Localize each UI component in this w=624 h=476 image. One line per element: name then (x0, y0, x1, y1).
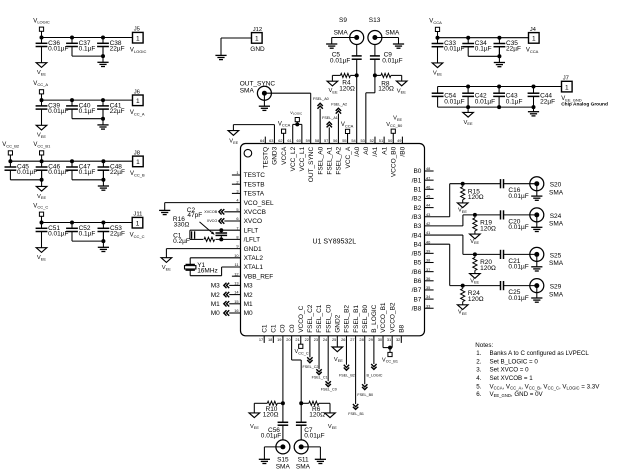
svg-text:34: 34 (426, 294, 431, 299)
svg-text:11: 11 (235, 262, 239, 267)
svg-text:FSEL_A2: FSEL_A2 (336, 146, 343, 174)
svg-text:OUT_SYNC: OUT_SYNC (308, 147, 315, 183)
svg-text:XVCCB: XVCCB (244, 209, 266, 216)
svg-text:B2: B2 (413, 205, 421, 212)
svg-text:27: 27 (350, 337, 354, 342)
svg-text:0.2µF: 0.2µF (173, 238, 190, 245)
svg-text:VEE: VEE (433, 70, 442, 76)
svg-text:35: 35 (426, 285, 430, 290)
svg-text:GND3: GND3 (272, 146, 279, 164)
svg-text:VCC_L1: VCC_L1 (299, 146, 306, 171)
svg-text:63: 63 (269, 138, 273, 143)
svg-text:120Ω: 120Ω (339, 85, 355, 92)
svg-text:14: 14 (234, 290, 239, 295)
svg-text:M2: M2 (211, 292, 220, 299)
svg-text:/B5: /B5 (412, 251, 422, 258)
svg-text:/B7: /B7 (412, 287, 422, 294)
svg-text:120Ω: 120Ω (263, 412, 279, 419)
svg-text:VEE: VEE (162, 265, 171, 271)
svg-text:59: 59 (306, 138, 310, 143)
svg-text:FSEL_A1: FSEL_A1 (322, 116, 338, 120)
svg-text:12: 12 (234, 271, 238, 276)
svg-text:M3: M3 (211, 283, 220, 290)
svg-text:Set XVCOB = 1: Set XVCOB = 1 (490, 375, 534, 382)
svg-text:40: 40 (426, 239, 431, 244)
svg-text:/B4: /B4 (412, 232, 422, 239)
svg-text:VCCO_C: VCCO_C (298, 305, 305, 332)
svg-text:49: 49 (397, 138, 401, 143)
svg-text:18: 18 (268, 337, 272, 342)
svg-text:A0: A0 (363, 146, 370, 154)
svg-text:0.01µF: 0.01µF (48, 108, 68, 115)
svg-text:SMA: SMA (276, 463, 291, 470)
svg-text:VCC_C: VCC_C (130, 233, 145, 239)
svg-text:1: 1 (136, 159, 140, 166)
svg-text:VCCA: VCCA (278, 121, 291, 127)
svg-text:4.: 4. (476, 375, 481, 382)
svg-text:/B8: /B8 (412, 305, 422, 312)
svg-text:22: 22 (305, 337, 309, 342)
svg-text:VLOGIC: VLOGIC (130, 48, 147, 54)
svg-text:60: 60 (297, 138, 302, 143)
svg-text:FSEL_A2: FSEL_A2 (331, 102, 347, 106)
svg-text:47pF: 47pF (187, 212, 202, 219)
svg-text:/B3: /B3 (412, 214, 422, 221)
svg-text:S13: S13 (369, 17, 381, 24)
svg-text:120Ω: 120Ω (309, 412, 325, 419)
svg-text:1: 1 (136, 220, 140, 227)
svg-text:S25: S25 (550, 252, 562, 259)
svg-text:J6: J6 (134, 89, 141, 95)
svg-text:28: 28 (359, 337, 363, 342)
svg-text:Chip Analog Ground: Chip Analog Ground (561, 102, 608, 108)
svg-text:0.01µF: 0.01µF (444, 99, 464, 106)
svg-text:FSEL_B2: FSEL_B2 (344, 305, 351, 333)
svg-text:50: 50 (388, 138, 393, 143)
svg-text:FSEL_C1: FSEL_C1 (312, 375, 328, 379)
svg-text:VCC_A: VCC_A (345, 146, 352, 168)
svg-text:26: 26 (341, 337, 345, 342)
svg-text:120Ω: 120Ω (480, 225, 496, 232)
svg-text:VCCA, VCC_A, VCC_B, VCC_C, VLO: VCCA, VCC_A, VCC_B, VCC_C, VLOGIC = 3.3V (490, 383, 601, 390)
svg-text:TESTA: TESTA (244, 191, 265, 198)
svg-text:TESTQ: TESTQ (263, 147, 270, 169)
svg-text:0.01µF: 0.01µF (508, 193, 528, 200)
svg-text:GND2: GND2 (335, 314, 342, 332)
svg-text:45: 45 (426, 194, 430, 199)
svg-text:0.1µF: 0.1µF (506, 99, 523, 106)
svg-text:M3: M3 (244, 283, 253, 290)
svg-text:/A1: /A1 (372, 146, 379, 156)
svg-text:B6: B6 (413, 278, 421, 285)
svg-text:0.01µF: 0.01µF (304, 432, 324, 439)
svg-text:52: 52 (370, 138, 374, 143)
svg-text:43: 43 (426, 212, 430, 217)
svg-text:1: 1 (532, 36, 536, 43)
svg-text:16: 16 (234, 308, 238, 313)
svg-text:6: 6 (236, 216, 238, 221)
svg-text:120Ω: 120Ω (468, 194, 484, 201)
svg-text:GND: GND (250, 46, 265, 53)
svg-text:38: 38 (426, 258, 430, 263)
svg-text:1: 1 (136, 35, 140, 42)
svg-text:S24: S24 (550, 213, 562, 220)
svg-text:S20: S20 (550, 182, 562, 189)
svg-text:7: 7 (236, 225, 238, 230)
svg-text:/LFLT: /LFLT (244, 237, 261, 244)
svg-text:0.1µF: 0.1µF (79, 231, 96, 238)
svg-text:FSEL_B1: FSEL_B1 (348, 412, 364, 416)
svg-text:0.01µF: 0.01µF (330, 58, 350, 65)
svg-text:M1: M1 (211, 301, 220, 308)
svg-text:B5: B5 (413, 260, 421, 267)
svg-text:J8: J8 (134, 150, 141, 156)
svg-text:/B6: /B6 (412, 269, 422, 276)
svg-text:56: 56 (333, 138, 337, 143)
svg-text:53: 53 (361, 138, 365, 143)
svg-text:VEE_GND, GND = 0V: VEE_GND, GND = 0V (490, 391, 544, 398)
svg-text:9: 9 (236, 244, 238, 249)
svg-text:J5: J5 (134, 27, 141, 33)
svg-text:24: 24 (323, 337, 328, 342)
svg-text:30: 30 (378, 337, 383, 342)
svg-text:22µF: 22µF (110, 46, 125, 53)
svg-text:S9: S9 (339, 17, 347, 24)
svg-text:FSEL_C0: FSEL_C0 (321, 387, 337, 391)
svg-text:VCCA: VCCA (429, 19, 442, 25)
svg-text:0.01µF: 0.01µF (508, 295, 528, 302)
svg-text:FSEL_B2: FSEL_B2 (339, 374, 355, 378)
svg-text:5.: 5. (476, 383, 481, 390)
svg-text:32: 32 (396, 337, 400, 342)
svg-text:/A0: /A0 (354, 146, 361, 156)
svg-text:0.01µF: 0.01µF (508, 224, 528, 231)
svg-text:22µF: 22µF (540, 99, 555, 106)
svg-text:VCC_C: VCC_C (33, 203, 48, 209)
svg-text:0.01µF: 0.01µF (261, 432, 281, 439)
svg-text:B7: B7 (413, 296, 421, 303)
svg-text:VCCA: VCCA (341, 122, 354, 128)
svg-text:B_LOGIC: B_LOGIC (371, 304, 378, 332)
svg-text:C0: C0 (289, 324, 296, 333)
svg-text:VEE: VEE (458, 208, 467, 214)
svg-text:FSEL_C2: FSEL_C2 (303, 365, 319, 369)
svg-text:VEE: VEE (393, 116, 402, 122)
svg-text:VCC_B2: VCC_B2 (2, 142, 20, 148)
svg-text:U1 SY89532L: U1 SY89532L (313, 238, 357, 245)
svg-text:VCC_L2: VCC_L2 (290, 146, 297, 171)
svg-text:M2: M2 (244, 292, 253, 299)
svg-text:VEE: VEE (37, 255, 46, 261)
svg-text:XTAL1: XTAL1 (244, 264, 264, 271)
svg-text:XVCO: XVCO (207, 219, 218, 223)
svg-text:C1: C1 (271, 324, 278, 333)
svg-text:VBB_REF: VBB_REF (244, 273, 274, 280)
svg-text:42: 42 (426, 221, 430, 226)
svg-text:25: 25 (332, 337, 336, 342)
svg-text:VEE: VEE (470, 239, 479, 245)
svg-text:15: 15 (234, 299, 238, 304)
svg-text:120Ω: 120Ω (480, 265, 496, 272)
svg-text:31: 31 (387, 337, 391, 342)
svg-text:SMA: SMA (385, 29, 400, 36)
svg-text:Notes:: Notes: (475, 342, 493, 349)
svg-text:J12: J12 (253, 27, 263, 33)
svg-text:VCC_C: VCC_C (295, 349, 309, 355)
svg-text:SMA: SMA (549, 221, 564, 228)
svg-text:VCCO_B2: VCCO_B2 (389, 302, 396, 333)
svg-text:M1: M1 (244, 301, 253, 308)
svg-text:/B0: /B0 (400, 146, 407, 156)
svg-text:51: 51 (379, 138, 383, 143)
svg-text:VEE: VEE (250, 424, 259, 430)
svg-text:0.01µF: 0.01µF (48, 46, 68, 53)
svg-text:1: 1 (255, 36, 259, 43)
svg-text:3: 3 (236, 189, 238, 194)
svg-text:19: 19 (277, 337, 281, 342)
svg-text:VCCO_B1: VCCO_B1 (380, 302, 387, 333)
svg-text:17: 17 (259, 337, 263, 342)
svg-text:/B1: /B1 (412, 177, 422, 184)
svg-text:VLOGIC: VLOGIC (33, 18, 50, 24)
svg-text:J7: J7 (563, 76, 569, 82)
svg-text:36: 36 (426, 276, 430, 281)
svg-text:41: 41 (426, 230, 430, 235)
svg-text:55: 55 (342, 138, 346, 143)
svg-text:FSEL_C0: FSEL_C0 (325, 304, 332, 333)
svg-text:FSEL_C1: FSEL_C1 (316, 304, 323, 333)
svg-text:SMA: SMA (240, 87, 255, 94)
svg-text:B0: B0 (413, 168, 421, 175)
svg-text:3.: 3. (476, 367, 481, 374)
svg-text:FSEL_B0: FSEL_B0 (362, 305, 369, 333)
svg-text:FSEL_B1: FSEL_B1 (353, 305, 360, 333)
svg-text:VEE: VEE (470, 278, 479, 284)
svg-text:44: 44 (426, 203, 431, 208)
svg-text:1: 1 (136, 98, 140, 105)
svg-text:10: 10 (234, 253, 239, 258)
svg-text:0.1µF: 0.1µF (475, 46, 492, 53)
svg-text:VEE: VEE (464, 120, 473, 126)
svg-text:0.1µF: 0.1µF (79, 108, 96, 115)
svg-text:LOGIC: LOGIC (293, 112, 303, 116)
svg-text:0.01µF: 0.01µF (475, 99, 495, 106)
svg-text:VCCO_B0: VCCO_B0 (390, 146, 397, 177)
svg-text:5: 5 (236, 207, 238, 212)
svg-text:20: 20 (286, 337, 291, 342)
svg-text:VEE: VEE (458, 310, 467, 316)
svg-text:120Ω: 120Ω (378, 86, 394, 93)
svg-text:54: 54 (351, 138, 356, 143)
svg-text:VEE: VEE (229, 139, 238, 145)
svg-text:VCC_B1: VCC_B1 (33, 142, 51, 148)
svg-text:TESTC: TESTC (244, 172, 266, 179)
svg-text:VCO_SEL: VCO_SEL (244, 200, 274, 207)
svg-text:2: 2 (236, 179, 238, 184)
svg-text:VEE: VEE (397, 88, 406, 94)
svg-text:29: 29 (369, 337, 373, 342)
svg-text:22µF: 22µF (110, 108, 125, 115)
svg-text:B_LOGIC: B_LOGIC (366, 374, 382, 378)
svg-text:61: 61 (287, 138, 291, 143)
svg-text:0.01µF: 0.01µF (444, 46, 464, 53)
svg-text:FSEL_A0: FSEL_A0 (313, 97, 329, 101)
svg-text:VCC_A: VCC_A (130, 110, 145, 116)
svg-text:SMA: SMA (549, 291, 564, 298)
svg-text:TESTB: TESTB (244, 181, 265, 188)
svg-text:M0: M0 (211, 310, 220, 317)
svg-text:47: 47 (426, 175, 430, 180)
svg-text:FSEL_A1: FSEL_A1 (326, 146, 333, 174)
svg-text:SMA: SMA (296, 463, 311, 470)
svg-text:B4: B4 (413, 241, 421, 248)
svg-text:2.: 2. (476, 359, 481, 366)
svg-text:VCC_A: VCC_A (33, 81, 48, 87)
svg-text:S29: S29 (550, 284, 562, 291)
svg-text:A1: A1 (381, 146, 388, 154)
svg-text:VEE: VEE (37, 70, 46, 76)
svg-text:B1: B1 (413, 187, 421, 194)
svg-text:0.1µF: 0.1µF (79, 46, 96, 53)
svg-text:M0: M0 (244, 310, 253, 317)
svg-text:VEE: VEE (37, 194, 46, 200)
svg-text:13: 13 (234, 281, 238, 286)
svg-text:21: 21 (295, 337, 299, 342)
svg-text:57: 57 (324, 138, 328, 143)
svg-text:4: 4 (236, 198, 239, 203)
svg-text:46: 46 (426, 184, 430, 189)
svg-text:VEE: VEE (37, 133, 46, 139)
svg-text:0.01µF: 0.01µF (508, 264, 528, 271)
svg-text:22µF: 22µF (110, 231, 125, 238)
svg-text:64: 64 (260, 138, 265, 143)
svg-text:XTAL2: XTAL2 (244, 255, 264, 262)
svg-text:SMA: SMA (334, 29, 349, 36)
svg-text:XVCO: XVCO (244, 218, 262, 225)
svg-text:VCC_B0: VCC_B0 (386, 122, 402, 128)
svg-text:OUT_SYNC: OUT_SYNC (240, 80, 276, 87)
svg-text:B3: B3 (413, 223, 421, 230)
svg-text:VCC_B1: VCC_B1 (382, 357, 398, 363)
svg-text:120Ω: 120Ω (468, 296, 484, 303)
svg-text:58: 58 (315, 138, 319, 143)
svg-text:37: 37 (426, 267, 430, 272)
svg-text:FSEL_C2: FSEL_C2 (307, 304, 314, 333)
svg-text:22µF: 22µF (506, 46, 521, 53)
svg-text:16MHz: 16MHz (197, 268, 218, 275)
svg-text:J4: J4 (530, 27, 537, 33)
svg-text:39: 39 (426, 248, 430, 253)
svg-text:LFLT: LFLT (244, 227, 259, 234)
svg-text:VCC_B: VCC_B (130, 171, 145, 177)
svg-text:SMA: SMA (549, 260, 564, 267)
svg-text:33: 33 (426, 303, 430, 308)
svg-text:J11: J11 (133, 212, 142, 218)
svg-text:/B2: /B2 (412, 196, 422, 203)
svg-text:0.1µF: 0.1µF (79, 169, 96, 176)
svg-text:VCCA: VCCA (281, 146, 288, 165)
svg-text:23: 23 (314, 337, 318, 342)
svg-text:VEE_GND: VEE_GND (561, 96, 582, 102)
svg-text:SMA: SMA (549, 190, 564, 197)
svg-text:1.: 1. (476, 350, 481, 357)
svg-text:VCCA: VCCA (526, 48, 539, 54)
svg-text:C1: C1 (261, 324, 268, 333)
svg-text:0.01µF: 0.01µF (48, 231, 68, 238)
svg-text:FSEL_A0: FSEL_A0 (317, 146, 324, 174)
svg-text:62: 62 (278, 138, 282, 143)
svg-text:VEE: VEE (334, 357, 343, 363)
svg-text:8: 8 (236, 235, 238, 240)
svg-text:Set XVCO = 0: Set XVCO = 0 (490, 367, 530, 374)
svg-text:GND1: GND1 (244, 246, 262, 253)
svg-text:B8: B8 (399, 324, 406, 332)
svg-text:Banks A to C configured as LVP: Banks A to C configured as LVPECL (490, 350, 590, 357)
svg-text:Set B_LOGIC = 0: Set B_LOGIC = 0 (490, 359, 539, 366)
svg-text:FSEL_B0: FSEL_B0 (357, 393, 373, 397)
svg-text:0.01µF: 0.01µF (48, 169, 68, 176)
svg-text:0.01µF: 0.01µF (382, 58, 402, 65)
svg-text:0.01µF: 0.01µF (17, 169, 37, 176)
svg-text:6.: 6. (476, 391, 481, 398)
svg-text:XVCOB: XVCOB (204, 210, 217, 214)
svg-text:22µF: 22µF (110, 169, 125, 176)
svg-text:C0: C0 (280, 324, 287, 333)
svg-text:48: 48 (426, 166, 430, 171)
svg-text:1: 1 (565, 84, 569, 91)
svg-text:VEE: VEE (328, 424, 337, 430)
svg-text:VEE: VEE (329, 88, 338, 94)
svg-text:330Ω: 330Ω (174, 222, 190, 229)
svg-text:1: 1 (236, 170, 238, 175)
